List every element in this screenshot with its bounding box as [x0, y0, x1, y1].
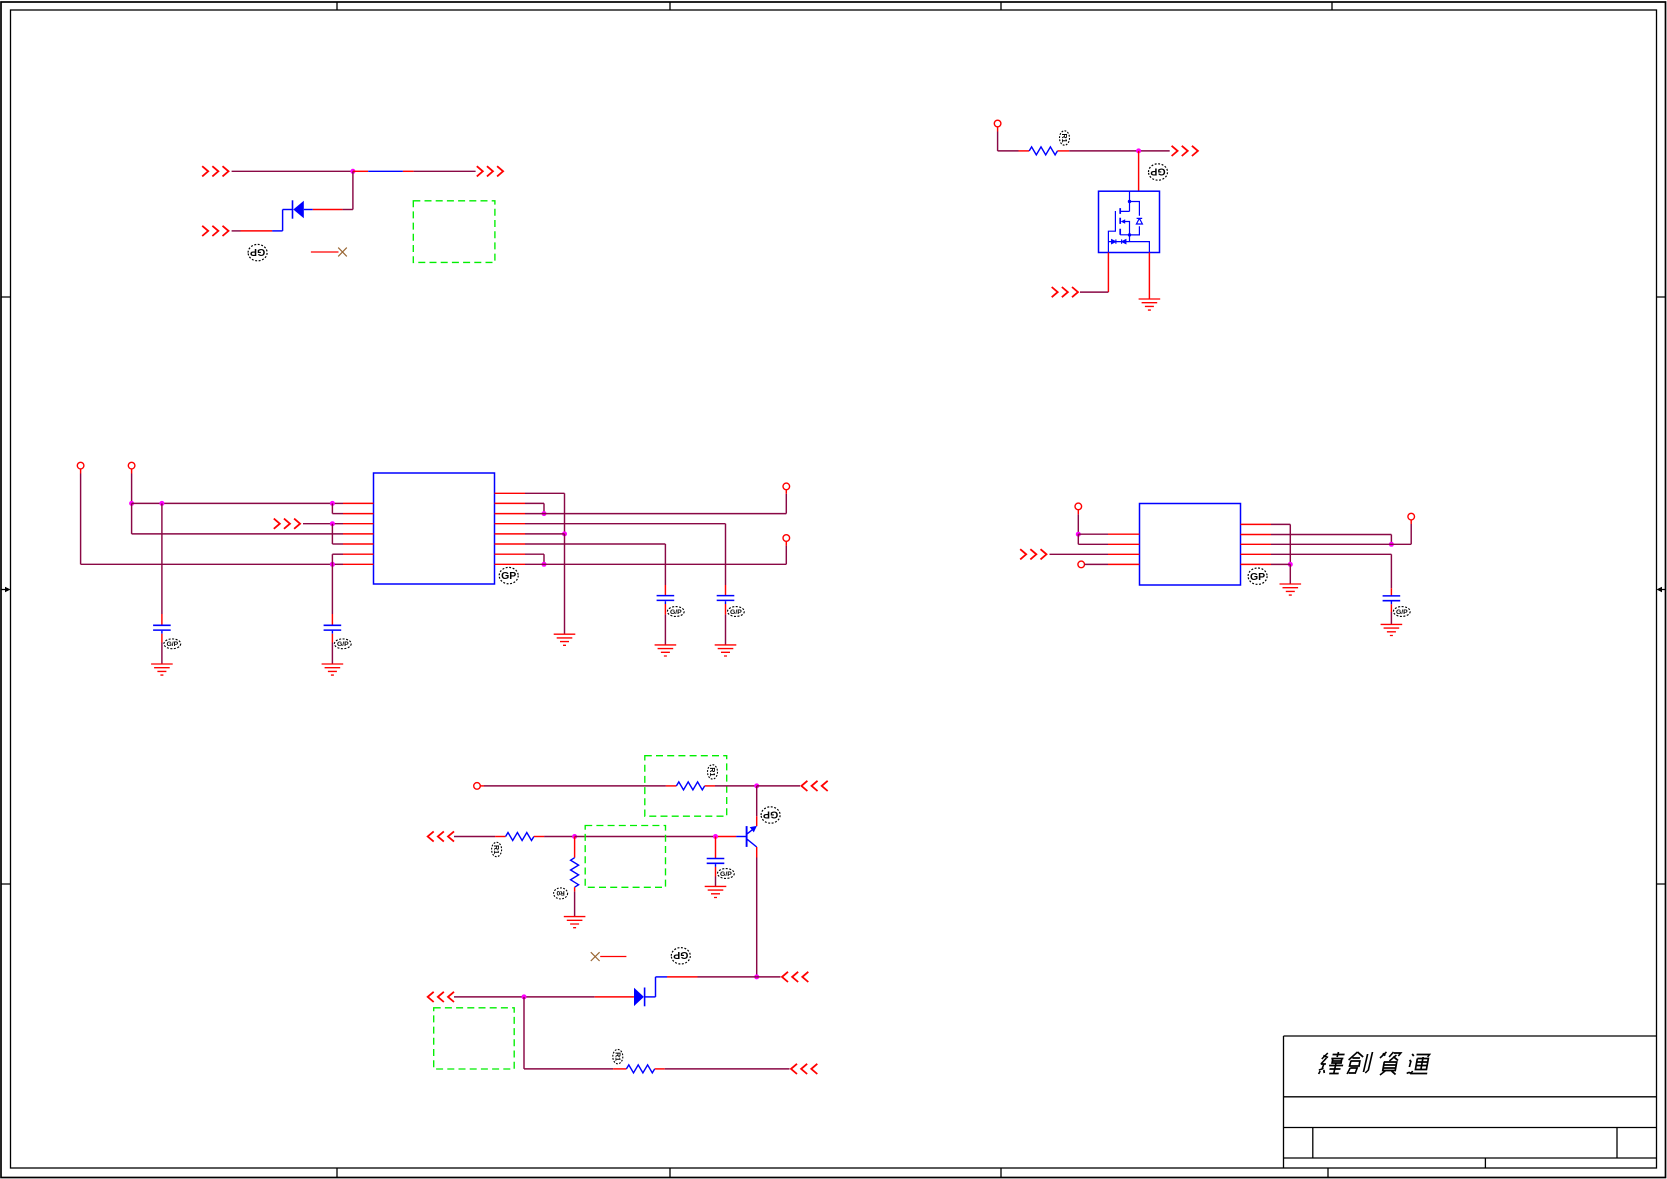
transistor Q5: [747, 826, 757, 847]
U2 left pin stubs: [1108, 534, 1140, 564]
ground cap C4: [715, 645, 737, 656]
wire row2 to resistor R6: [454, 836, 506, 838]
wire Ra to ground leg: [1271, 524, 1290, 564]
resistor R6 (row2): [506, 833, 534, 841]
mosfet Q1 internals: [1108, 191, 1149, 252]
connector OUT row1: [801, 781, 827, 791]
wire Rd to cap: [1271, 554, 1391, 596]
svg-text:G/P: G/P: [720, 871, 732, 878]
node junction top-right: [1136, 148, 1141, 153]
resistor R5 (row1): [676, 782, 704, 790]
wire La to Lb: [1078, 534, 1108, 544]
terminal circle T1 (far left): [77, 462, 84, 469]
svg-text:GP: GP: [501, 570, 516, 582]
connector OUT top-right: [1172, 146, 1198, 156]
wire R5: [525, 533, 565, 535]
capacitor C2 (left circuit): [324, 625, 342, 633]
node junction La: [1076, 532, 1081, 537]
node junction T2/L1: [129, 501, 134, 506]
hierarchical block (green dashed) top-left: [413, 201, 495, 263]
wire row1 to resistor: [480, 785, 676, 787]
wire L3 to L5: [332, 524, 343, 544]
wire row4 junction down to row5: [524, 997, 626, 1069]
label G/P cap C3: [667, 607, 684, 617]
ground cap C5: [1381, 624, 1403, 635]
wire resistor R5 to junction: [705, 785, 757, 787]
node junction row2b: [713, 834, 718, 839]
capacitor C5: [1383, 596, 1401, 604]
node junction R5: [562, 531, 567, 536]
ground cap C2: [322, 664, 344, 675]
hierarchical block green box2: [585, 826, 665, 888]
label D (rotated GP circle): [248, 244, 267, 260]
label Q (rotated GP circle) top-right: [1149, 164, 1168, 180]
capacitor C4: [717, 596, 735, 604]
label Q5 (rotated circle): [761, 807, 780, 823]
wire R8b to connector: [655, 1068, 790, 1070]
wire R4 to capB: [525, 524, 726, 596]
wire Re row: [1271, 563, 1290, 565]
svg-text:GP: GP: [673, 949, 688, 961]
terminal circle T2: [128, 462, 135, 469]
connector IN L3: [274, 519, 300, 529]
node junction Rc: [1389, 542, 1394, 547]
svg-text:GP: GP: [763, 808, 778, 820]
ground R1/R5: [554, 634, 576, 645]
U2 right pin stubs: [1241, 524, 1272, 564]
capacitor C6: [707, 859, 725, 867]
svg-text:G/P: G/P: [166, 641, 178, 648]
diode D2 (pointing right): [634, 988, 645, 1007]
wire row1 to junction: [232, 170, 353, 172]
connector IN row4: [428, 992, 454, 1002]
wire ground leg down: [564, 534, 566, 634]
wire mosfet right lead to ground: [1148, 253, 1150, 300]
wire L1 row: [132, 502, 343, 504]
connector IN top-left row2: [202, 226, 228, 236]
wire L6 corner to L7 junction, down to cap2: [332, 554, 343, 625]
resistor R5 label: [708, 765, 718, 779]
wire diode to connector IN row2: [232, 210, 283, 231]
label Q6 (rotated circle) bottom: [671, 948, 690, 964]
node junction cap1 tap: [159, 501, 164, 506]
svg-text:GP: GP: [1250, 571, 1265, 583]
wire row3 to connector: [757, 976, 781, 978]
svg-text:GP: GP: [1150, 165, 1165, 177]
ground cap C1: [151, 664, 173, 675]
node junction R3: [542, 511, 547, 516]
wire cap C4 to ground: [725, 604, 727, 645]
wire R3 to terminal: [525, 490, 786, 514]
svg-text:R0: R0: [556, 889, 565, 896]
connector IN top-left row1: [202, 166, 228, 176]
wire L1 to L2: [332, 503, 343, 513]
terminal circle U2 right: [1408, 513, 1415, 520]
wire Lc row: [1050, 553, 1109, 555]
svg-text:G/P: G/P: [337, 641, 349, 648]
wire R7 to R8: [525, 554, 544, 564]
wire junction down to pin L4: [132, 503, 343, 534]
wire row2 junction to junction2: [575, 836, 716, 838]
wire L3: [303, 523, 343, 525]
resistor R7 label: [554, 888, 568, 899]
label G/P cap C4: [728, 607, 745, 617]
wire Ld row: [1085, 563, 1109, 565]
U1 right pin stubs: [495, 493, 526, 564]
label GP circle U1: [499, 567, 518, 583]
wire R2 to R3: [525, 503, 544, 513]
IC U2 box: [1140, 504, 1241, 586]
node junction Re: [1288, 562, 1293, 567]
terminal circle R3: [783, 483, 790, 490]
resistor R label: [1060, 131, 1070, 145]
wire R1 to ground leg: [525, 493, 565, 534]
ground R7: [564, 917, 586, 928]
wire mosfet left lead to connector: [1080, 253, 1108, 293]
wire R7 to ground: [574, 887, 576, 916]
label G/P cap C6: [718, 869, 735, 879]
diode D1 (pointing left): [283, 200, 313, 218]
wire junction down to diode: [313, 171, 353, 209]
no-connect X with red line (bottom): [591, 952, 627, 961]
wire junction2a down to resistor R7: [574, 837, 576, 858]
connector OUT row3: [782, 972, 808, 982]
wire junction down to mosfet: [1138, 151, 1140, 191]
resistor R (top-right): [1029, 147, 1057, 155]
connector OUT top-left row1: [477, 166, 503, 176]
capacitor C3: [657, 596, 675, 604]
node junction R8: [542, 562, 547, 567]
wire cap C3 to ground: [664, 604, 666, 645]
node junction L1: [330, 501, 335, 506]
node junction L7: [330, 562, 335, 567]
svg-text:R1: R1: [613, 1052, 620, 1061]
svg-text:G/P: G/P: [670, 609, 682, 616]
wire Rb to Rc: [1271, 535, 1391, 545]
wire row1 to connector: [757, 785, 800, 787]
wire T2 down to junction: [131, 469, 133, 504]
wire terminal down to La: [1077, 510, 1079, 535]
terminal circle U2 left: [1075, 503, 1082, 510]
ground cap C6: [705, 886, 727, 897]
connector IN U2: [1020, 549, 1046, 559]
wire T1 down and to pin L7: [81, 469, 343, 564]
terminal circle R8: [783, 535, 790, 542]
svg-text:R1: R1: [492, 845, 499, 854]
hierarchical block green box1: [645, 756, 727, 817]
svg-text:G/P: G/P: [730, 609, 742, 616]
terminal circle bottom row1: [474, 783, 481, 790]
ground top-right: [1139, 299, 1161, 310]
wire junction2b down to cap C6: [715, 837, 717, 859]
ground cap C3: [655, 645, 677, 656]
svg-text:G/P: G/P: [1396, 609, 1408, 616]
label G/P cap C5: [1393, 607, 1410, 617]
svg-text:R1: R1: [1060, 134, 1067, 143]
resistor R7 (vertical): [571, 858, 579, 888]
wire emitter down: [756, 847, 758, 977]
title block: [1284, 1036, 1657, 1168]
capacitor C1 (left circuit): [153, 625, 171, 633]
connector IN row2: [428, 831, 454, 841]
no-connect red line with X: [311, 248, 347, 257]
svg-text:GP: GP: [250, 246, 265, 258]
ground U2: [1280, 584, 1302, 595]
wire Rc to terminal: [1271, 520, 1411, 544]
connector OUT row5: [791, 1064, 817, 1074]
wire row1 junction to output (multi-color): [353, 170, 476, 172]
svg-text:R1: R1: [708, 767, 715, 776]
label G/P cap C1: [164, 639, 181, 649]
terminal circle Ld: [1078, 561, 1085, 568]
wire resistor to junction: [1058, 150, 1170, 152]
label G/P cap C2: [334, 639, 351, 649]
wire junction down to transistor: [756, 786, 758, 826]
U1 left pin stubs: [343, 503, 374, 564]
wire R6 to junction: [534, 836, 575, 838]
wire cap C5 to ground: [1390, 604, 1392, 624]
node junction row2a: [572, 834, 577, 839]
wire row4 to diode: [454, 996, 634, 998]
resistor R6 label: [492, 842, 502, 856]
wire R6 to capA: [525, 544, 665, 596]
wire R8 to terminal: [525, 541, 786, 564]
wire diode up to row3: [645, 977, 757, 997]
node junction emitter/row3: [754, 974, 759, 979]
mosfet Q1 box: [1099, 191, 1160, 252]
connector IN bottom of top-right: [1052, 287, 1078, 297]
resistor R8b label: [613, 1049, 623, 1063]
wire cap C1 to ground: [161, 634, 163, 664]
IC U1 box: [374, 473, 495, 584]
wire cap1 tap down: [161, 503, 163, 625]
node junction L3: [330, 521, 335, 526]
wire base lead: [716, 836, 747, 838]
node junction row4: [522, 994, 527, 999]
hierarchical block green box3: [434, 1008, 515, 1069]
resistor R8b (row5): [626, 1065, 654, 1073]
wire ground leg U2: [1289, 564, 1291, 584]
terminal circle top-right: [994, 120, 1001, 127]
company logo text: [1318, 1052, 1431, 1075]
node junction row1: [350, 169, 355, 174]
label GP circle U2: [1248, 568, 1267, 584]
wire cap C2 to ground: [331, 634, 333, 664]
wire cap C6 to ground: [715, 867, 717, 887]
node junction row1: [754, 783, 759, 788]
wire terminal to resistor: [998, 127, 1030, 151]
wire La row: [1078, 533, 1108, 535]
